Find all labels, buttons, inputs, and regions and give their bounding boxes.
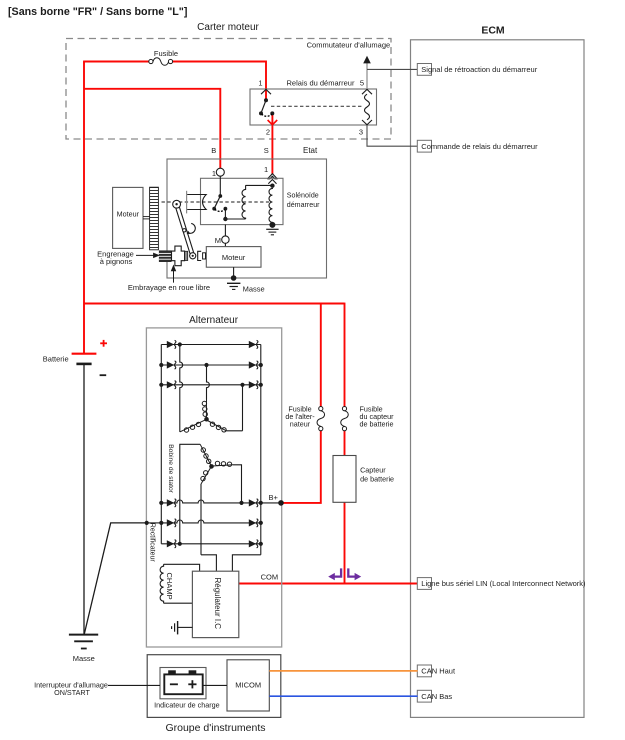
overrunning clutch body [172, 246, 185, 266]
svg-text:M: M [215, 236, 221, 245]
motor ground symbol [227, 283, 240, 289]
solenoid switch blade [214, 196, 220, 209]
svg-text:S: S [264, 146, 269, 155]
svg-text:Masse: Masse [243, 284, 265, 293]
wire CAN Haut (orange) [269, 670, 417, 672]
drive motor box [113, 187, 143, 248]
terminal S inner chevron [268, 180, 276, 184]
relay pin 3 chevron [362, 120, 372, 125]
junction row3 right [259, 383, 263, 387]
battery icon terminal tabs [168, 670, 196, 674]
solenoid fixed contact dot [224, 207, 228, 211]
svg-text:à pignons: à pignons [100, 257, 133, 266]
pinion gear [159, 250, 172, 262]
svg-text:CHAMP: CHAMP [165, 573, 174, 600]
svg-text:Bobine de stator: Bobine de stator [167, 444, 174, 493]
svg-text:Signal de rétroaction du démar: Signal de rétroaction du démarreur [421, 65, 537, 74]
svg-text:CAN Haut: CAN Haut [421, 667, 456, 676]
solenoid plunger centerline (dashed) [162, 201, 270, 203]
svg-text:Alternateur: Alternateur [189, 315, 239, 326]
engine-case dashed box (Carter moteur) [66, 39, 391, 140]
diode D3L [167, 381, 174, 388]
battery positive plate (red) [72, 353, 97, 355]
solenoid hold-in coil [269, 188, 272, 224]
clutch collar [185, 251, 188, 260]
svg-text:1: 1 [264, 165, 268, 174]
svg-text:Relais du démarreur: Relais du démarreur [287, 79, 355, 88]
clutch yoke [198, 251, 202, 260]
stator winding2 star point [209, 464, 214, 469]
svg-text:Groupe d'instruments: Groupe d'instruments [165, 722, 265, 734]
relay moving contact dot [259, 111, 263, 115]
diode D6L [167, 540, 174, 547]
svg-text:CAN Bas: CAN Bas [421, 692, 452, 701]
charge indicator battery icon body [164, 674, 202, 694]
wire alternator ground diagonal [84, 523, 146, 634]
battery ground symbol (Masse) [69, 635, 98, 649]
gear rack [150, 187, 159, 250]
relay dashed armature link [271, 105, 363, 107]
junction row6 right [259, 542, 263, 546]
relay pin 2 chevron (red) [268, 120, 278, 125]
solenoid S junction dot [270, 184, 274, 188]
rectifier row6 wire [161, 543, 260, 545]
ECM pin Ligne bus LIN box [417, 578, 431, 590]
relay coil [365, 94, 370, 120]
solenoid contact dot upper [218, 194, 222, 198]
diode D1R [249, 341, 256, 348]
wire rectifier to regulator left step [201, 555, 216, 571]
solenoid B contact wire [219, 176, 221, 196]
ignition switch arrow (Commutateur d allumage) [363, 56, 371, 64]
regulator ground stub [178, 626, 192, 628]
phase C vertical (winding1) [242, 385, 244, 431]
svg-text:Régulateur I.C: Régulateur I.C [213, 578, 222, 630]
diode D4R [249, 499, 256, 506]
junction row4 phaseC2 [239, 501, 243, 505]
junction row5 boxedge [145, 521, 149, 525]
junction row6 phaseA2 [178, 542, 182, 546]
lever rotation arrow [187, 223, 196, 234]
stator winding2 lower coil [201, 468, 211, 484]
charge indicator inner box [160, 668, 206, 699]
ECM box [411, 40, 585, 718]
field coil bottom wire [164, 602, 193, 604]
ECM pin Signal de retroaction box [417, 64, 431, 76]
wire B branch (red, to starter B terminal) [84, 89, 220, 168]
shift lever pivot [173, 200, 181, 208]
svg-text:de batterie: de batterie [360, 419, 394, 428]
regulator ground symbol [172, 621, 178, 634]
svg-text:Commutateur d'allumage: Commutateur d'allumage [307, 41, 391, 50]
wire relay pin3 to ECM [367, 125, 418, 146]
clutch pointer arrow [172, 266, 176, 283]
ECM pin Commande de relais box [417, 140, 431, 152]
terminal B circle [216, 168, 224, 176]
diode D6R [249, 540, 256, 547]
label Capteur de batterie [360, 465, 394, 483]
LIN arrow right (purple) [348, 568, 361, 580]
stator winding2 upper coil [200, 444, 211, 465]
stator winding2 top-left leg [180, 444, 200, 544]
fusible fuse symbol [149, 58, 173, 66]
label Fusible du capteur de batterie [360, 404, 395, 428]
solenoid output junction dot [223, 217, 227, 221]
svg-text:MICOM: MICOM [235, 681, 261, 690]
alternator fuse symbol [319, 407, 323, 411]
stator winding1 right leg [226, 430, 242, 432]
wire battery icon to MICOM [203, 684, 227, 686]
wire alternator fuse drop upper (red) [320, 303, 322, 407]
junction row3 phaseC [240, 383, 244, 387]
svg-text:Commande de relais du démarreu: Commande de relais du démarreur [421, 142, 538, 151]
diode D2R [249, 361, 256, 368]
shift lever arm [175, 204, 195, 257]
svg-text:Indicateur de charge: Indicateur de charge [154, 701, 220, 710]
junction row2 left [159, 363, 163, 367]
svg-text:Moteur: Moteur [222, 253, 246, 262]
wire relay pin2 to S terminal (red) [271, 114, 273, 175]
LIN arrow left (purple) [328, 568, 341, 580]
rectifier row5 extension to ground tap [147, 522, 162, 524]
svg-text:démarreur: démarreur [287, 201, 320, 209]
wire fuse to relay pin1 (red) [172, 62, 266, 101]
relay pin 5 chevron [362, 89, 372, 94]
field coil top wire [164, 564, 200, 571]
wire solenoid to M terminal [224, 225, 226, 236]
wire battery negative down [83, 364, 85, 635]
wire relay pin5 riser [366, 63, 368, 89]
svg-text:[Sans borne "FR" / Sans borne: [Sans borne "FR" / Sans borne "L"] [8, 6, 187, 18]
rectifier left bus [160, 345, 162, 544]
wire CAN Bas (blue) [269, 695, 417, 697]
rectifier row5 wire [161, 520, 260, 523]
solenoid pull-in coil bottom wire [225, 218, 245, 220]
junction row1 phaseA [178, 342, 182, 346]
field coil CHAMP [160, 564, 163, 603]
relay contact dotted throw arc [262, 114, 273, 116]
lever lower joint [190, 253, 196, 259]
svg-text:ON/START: ON/START [54, 688, 90, 697]
solenoid box [201, 178, 284, 224]
rectifier row4 extension to box edge [261, 502, 281, 504]
junction B+ at box edge [278, 500, 284, 506]
MICOM box [227, 660, 269, 711]
rectifier row3 wire [161, 384, 260, 386]
phase A vertical (winding1) [180, 345, 183, 432]
rectifier row2 wire [161, 364, 260, 366]
diode D3R [249, 381, 256, 388]
wire alternator fuse drop lower (red) [281, 431, 321, 503]
battery sensor box (Capteur de batterie) [333, 456, 356, 503]
svg-text:Fusible: Fusible [154, 49, 178, 58]
junction row5 right [259, 521, 263, 525]
stator winding2 lower leg [200, 484, 202, 555]
svg-text:Moteur: Moteur [117, 210, 140, 219]
label Fusible de l alternateur [285, 404, 315, 428]
solenoid ground junction dot [269, 222, 275, 228]
diode D1L [167, 341, 174, 348]
wire main feed horizontal (red) [84, 303, 345, 305]
svg-text:COM: COM [261, 572, 279, 581]
wire LIN bus horizontal (red) [239, 583, 418, 585]
svg-text:Batterie: Batterie [43, 355, 69, 364]
wire M to motor [224, 243, 226, 246]
relay fixed contact dot [270, 111, 274, 115]
wire rectifier to regulator right step [232, 555, 260, 571]
svg-text:B+: B+ [269, 493, 279, 502]
battery plus sign [100, 340, 107, 347]
starter outer box (Etat) [167, 159, 327, 278]
shift lever mid joint [183, 229, 186, 232]
regulator box (Regulateur I.C) [192, 571, 238, 637]
relay switch blade [261, 100, 266, 113]
alternator box [146, 328, 281, 647]
phase B vertical (winding1) [207, 365, 210, 400]
battery negative plate [76, 363, 91, 366]
wire battery-sensor fuse to sensor box (red) [344, 431, 346, 456]
diode D5R [249, 519, 256, 526]
solenoid pull-in coil [242, 185, 246, 219]
svg-text:de batterie: de batterie [360, 475, 394, 484]
stator winding1 star point [204, 417, 209, 422]
stator winding1 right coil [208, 421, 227, 432]
svg-text:nateur: nateur [290, 419, 311, 428]
svg-text:Carter moteur: Carter moteur [197, 22, 259, 33]
svg-text:Embrayage en roue libre: Embrayage en roue libre [128, 283, 210, 292]
svg-text:Masse: Masse [73, 654, 95, 663]
terminal M circle [222, 236, 229, 243]
junction row4 right [259, 501, 263, 505]
wire battery riser (red, battery + to fuse line) [83, 62, 85, 354]
diode D4L [167, 499, 174, 506]
battery icon minus sign [170, 683, 178, 685]
wire ignition to cluster [108, 684, 160, 686]
svg-text:Solénoïde: Solénoïde [287, 192, 319, 200]
svg-text:B: B [211, 146, 216, 155]
motor shaft [143, 217, 150, 219]
relay box (Relais du demarreur) [250, 89, 377, 125]
ECM pin CAN Bas box [417, 690, 431, 702]
stator winding2 right leg [233, 465, 242, 503]
starter motor box [206, 247, 261, 268]
svg-text:ECM: ECM [481, 25, 505, 37]
solenoid ground symbol [266, 229, 278, 235]
diode D2L [167, 361, 174, 368]
junction row2 right [259, 363, 263, 367]
junction row4 left [159, 501, 163, 505]
ECM pin CAN Haut box [417, 665, 431, 677]
rectifier row4 wire (B+ row) [161, 500, 260, 503]
stator winding2 right coil [213, 461, 233, 466]
junction row3 left [159, 383, 163, 387]
stator winding1 top coil [202, 400, 207, 419]
svg-text:5: 5 [360, 79, 364, 88]
wire motor to ground [233, 267, 235, 278]
svg-text:3: 3 [359, 128, 363, 137]
battery sensor fuse symbol [342, 407, 346, 411]
solenoid contact dotted throw arc [215, 209, 225, 211]
svg-text:Capteur: Capteur [360, 465, 386, 474]
instrument cluster box (Groupe d instruments) [147, 655, 281, 718]
svg-text:Etat: Etat [303, 146, 318, 155]
pinion pointer arrow [136, 253, 159, 257]
clutch end piece [203, 253, 206, 259]
wire fuse feed horizontal (red) [83, 61, 149, 63]
svg-text:1: 1 [258, 79, 262, 88]
battery icon plus sign [188, 680, 196, 688]
svg-text:1: 1 [212, 169, 216, 178]
relay pin 1 chevron [261, 89, 271, 94]
stator winding1 left coil [180, 420, 206, 432]
rectifier right bus [260, 345, 262, 555]
svg-text:Rectificateur: Rectificateur [149, 523, 156, 563]
terminal S filled chevron [268, 174, 278, 179]
junction row5 left [159, 521, 163, 525]
diode D5L [167, 519, 174, 526]
relay contact common dot [264, 98, 268, 102]
wire sensor box to LIN line (red) [344, 502, 346, 583]
motor ground junction dot [231, 275, 237, 281]
solenoid moving contact dot [212, 207, 216, 211]
rectifier row1 wire [161, 344, 260, 346]
wire battery-sensor fuse drop upper (red) [344, 303, 346, 407]
solenoid coil top wire [246, 184, 273, 186]
solenoid contact output wire [224, 209, 226, 219]
wire starter feedback signal to ECM [367, 68, 418, 70]
svg-text:Ligne bus sériel LIN (Local In: Ligne bus sériel LIN (Local Interconnect… [421, 579, 586, 588]
battery minus sign [100, 374, 107, 376]
svg-text:2: 2 [266, 128, 270, 137]
junction row2 phaseB [204, 363, 208, 367]
solenoid plunger cup [187, 191, 207, 214]
